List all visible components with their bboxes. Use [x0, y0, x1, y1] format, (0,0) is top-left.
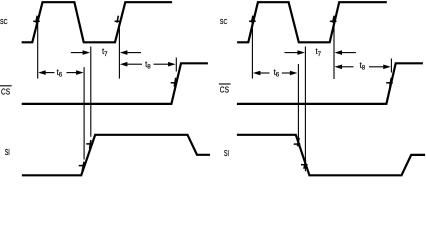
node measurement cross on SC rising edge 1 left	[33, 16, 40, 23]
arrowhead t6 right-diagram left end	[253, 71, 261, 76]
svg-text:SI: SI	[5, 148, 10, 157]
node measurement cross on SI falling edge lower right	[301, 160, 308, 168]
wire SC clock waveform right	[237, 2, 387, 42]
svg-text:CS: CS	[1, 87, 10, 97]
node measurement cross on SI edge upper left	[86, 140, 93, 149]
arrowhead t8 right end	[168, 62, 176, 67]
wire dimension line t8 left	[127, 63, 169, 65]
label CS-bar left	[0, 85, 12, 87]
wire dimension line t6 right	[260, 72, 291, 74]
wire vertical reference line 5 left	[175, 58, 177, 72]
wire dimension line t6 left	[45, 72, 76, 74]
arrowhead t6 right-diagram right end	[290, 71, 298, 76]
node measurement cross on SC rising edge 1 right	[249, 16, 256, 23]
wire dimension line t7 right	[285, 52, 356, 54]
wire SC clock waveform left	[22, 2, 173, 42]
node measurement cross on CS rising edge right	[386, 78, 393, 87]
arrowhead t7 pointing right	[83, 50, 91, 55]
node measurement cross on SC rising edge 2 right	[330, 16, 337, 23]
arrowhead t8 right-diagram left end	[335, 65, 343, 70]
arrowhead t7 pointing left	[120, 50, 128, 55]
arrowhead t8 right-diagram right end	[383, 65, 391, 70]
wire vertical reference line 2 right	[297, 64, 299, 144]
wire vertical reference line 4 left	[118, 22, 120, 79]
node measurement cross on CS rising edge left	[171, 78, 178, 87]
node measurement cross on SI falling edge upper right	[294, 138, 301, 146]
wire CS-bar waveform right	[237, 63, 423, 104]
wire vertical reference line 2 left	[83, 67, 85, 159]
arrowhead t7 right-diagram pointing left	[335, 50, 343, 55]
svg-text:SI: SI	[224, 149, 229, 158]
wire vertical reference line 1 left	[37, 21, 39, 79]
svg-text:SC: SC	[0, 17, 8, 26]
wire vertical reference line 4 right	[333, 22, 335, 80]
wire CS-bar waveform left	[22, 63, 208, 104]
wire vertical reference line 3 right	[304, 47, 306, 172]
svg-text:SC: SC	[220, 17, 228, 26]
arrowhead t8 left end	[120, 62, 128, 67]
label CS-bar right	[219, 83, 231, 85]
arrowhead t6 right end	[76, 70, 84, 75]
node measurement cross on SI edge lower left	[79, 162, 86, 171]
wire SI data waveform left	[22, 135, 210, 176]
wire vertical reference line 5 right	[390, 59, 392, 73]
wire SI data waveform right	[237, 135, 425, 176]
svg-text:CS: CS	[220, 84, 229, 94]
arrowhead t6 left end	[38, 70, 46, 75]
wire dimension line t8 right	[342, 66, 384, 68]
wire dimension line t7 left	[71, 52, 141, 54]
wire vertical reference line 1 right	[251, 21, 253, 79]
node measurement cross on SC rising edge 2 left	[115, 16, 122, 23]
wire vertical reference line 3 left	[90, 47, 92, 137]
arrowhead t7 right-diagram pointing right	[297, 50, 305, 55]
